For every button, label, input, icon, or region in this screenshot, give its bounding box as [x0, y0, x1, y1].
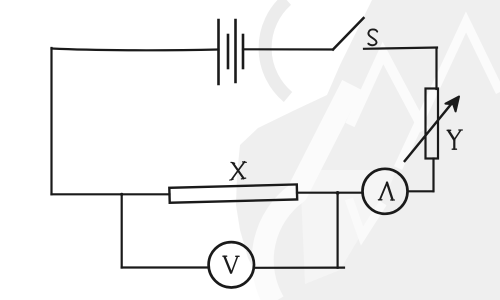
- wire top left horizontal: [52, 49, 219, 51]
- rheostat Y body: [426, 89, 439, 159]
- wire left to resistor: [52, 193, 170, 195]
- label V in voltmeter: [223, 256, 239, 273]
- wire voltmeter branch right vertical: [337, 193, 339, 268]
- label Y: [447, 130, 462, 149]
- junction blob left: [120, 193, 123, 196]
- wire switch to right corner: [364, 48, 437, 49]
- wire left vertical: [50, 48, 52, 194]
- label S: [368, 29, 377, 45]
- battery long plate 2: [234, 20, 237, 82]
- label X: [230, 162, 247, 180]
- watermark white J band: [263, 85, 352, 300]
- resistor X body: [169, 184, 297, 202]
- wire resistor to ammeter: [297, 192, 363, 194]
- wire right vertical to rheostat: [435, 49, 437, 90]
- battery short plate 2: [242, 35, 245, 68]
- wire voltmeter branch left vertical: [121, 194, 123, 267]
- label A in ammeter: [378, 183, 394, 200]
- wire voltmeter to right branch: [254, 267, 344, 269]
- ammeter A circle: [363, 169, 408, 214]
- wire corner to ammeter: [408, 190, 433, 192]
- wire battery to switch: [243, 48, 333, 50]
- watermark gray field right side: [236, 0, 500, 300]
- watermark white middle blob: [300, 170, 396, 284]
- watermark white chevron gap 2: [398, 22, 500, 168]
- rheostat arrow shaft: [405, 103, 453, 162]
- watermark small ring arc upper left: [265, 0, 288, 97]
- voltmeter V circle: [209, 242, 254, 287]
- battery short plate 1: [227, 35, 230, 68]
- battery long plate 1: [217, 20, 220, 84]
- junction blob right: [336, 191, 340, 195]
- wire rheostat to corner: [432, 159, 434, 192]
- watermark white chevron gap 1: [350, 53, 424, 130]
- switch S blade: [333, 18, 364, 50]
- watermark white tick inside disk: [349, 199, 383, 236]
- rheostat arrow head: [445, 97, 459, 112]
- wire bottom left to voltmeter: [122, 266, 208, 268]
- watermark background: [236, 0, 500, 300]
